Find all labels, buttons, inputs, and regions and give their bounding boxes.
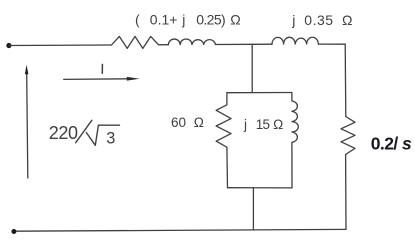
wire (top feed down to parallel box) bbox=[251, 44, 253, 92]
svg-text:Ω: Ω bbox=[194, 115, 204, 130]
value label ( 0.1+j 0.25) ohm bbox=[135, 11, 241, 27]
inductor L3 (j15 ohm, right edge of box, 4 humps bulging right) bbox=[292, 93, 298, 188]
wire (bottom feed from box to bottom wire) bbox=[252, 188, 254, 230]
resistor R2 (60 ohm, left edge of box with zigzag) bbox=[216, 93, 231, 188]
value label j 0.35 ohm bbox=[291, 12, 352, 28]
wire (right branch upper vertical) bbox=[344, 44, 347, 116]
svg-text:0.35: 0.35 bbox=[304, 12, 333, 28]
wire (box bottom edge) bbox=[228, 187, 293, 189]
svg-text:s: s bbox=[402, 134, 412, 154]
resistor R1 (series 0.1+j0.25 ohm, zigzag) bbox=[112, 36, 159, 48]
wire (L2 to top-right corner) bbox=[318, 43, 345, 45]
svg-text:Ω: Ω bbox=[273, 117, 283, 132]
current arrow I (horizontal arrow) bbox=[64, 77, 140, 81]
svg-text:j: j bbox=[291, 12, 295, 28]
value label 60 ohm bbox=[171, 115, 204, 130]
resistor R3 (0.2/s, vertical zigzag) bbox=[341, 117, 355, 155]
inductor L1 (series 0.1+j0.25 ohm, 4 humps) bbox=[168, 39, 215, 45]
svg-text:Ω: Ω bbox=[230, 11, 240, 27]
svg-text:220: 220 bbox=[49, 123, 78, 143]
wire (L1 to junction to L2) bbox=[215, 43, 272, 45]
svg-text:(: ( bbox=[135, 11, 140, 27]
inductor L2 (j0.35 ohm, 4 humps) bbox=[272, 37, 318, 44]
svg-text:Ω: Ω bbox=[342, 12, 352, 28]
svg-text:3: 3 bbox=[106, 130, 115, 148]
node A (top-left terminal dot) bbox=[6, 43, 11, 48]
wire (bottom horizontal) bbox=[15, 229, 347, 231]
node B (bottom-left terminal dot) bbox=[11, 229, 16, 234]
source polarity arrow (vertical, pointing up) bbox=[25, 65, 29, 178]
wire (box top edge) bbox=[227, 92, 292, 94]
svg-text:0.2/: 0.2/ bbox=[371, 134, 399, 154]
label I (current symbol drawn as bar) bbox=[101, 64, 103, 73]
svg-text:j: j bbox=[243, 117, 247, 132]
svg-text:j: j bbox=[181, 11, 185, 27]
svg-text:0.1+: 0.1+ bbox=[150, 11, 178, 27]
svg-text:60: 60 bbox=[171, 115, 186, 130]
value label j 15 ohm bbox=[243, 117, 283, 132]
wire (between R1 and L1) bbox=[159, 44, 169, 46]
svg-text:15: 15 bbox=[256, 117, 270, 132]
value label 0.2/s (load impedance) bbox=[371, 134, 412, 154]
divider slash of 220/sqrt3 bbox=[76, 120, 92, 142]
svg-text:0.25): 0.25) bbox=[196, 11, 225, 27]
radical sign of sqrt 3 bbox=[86, 125, 119, 145]
wire (top-left horizontal segment) bbox=[10, 44, 112, 47]
wire (right branch lower vertical) bbox=[345, 155, 347, 230]
